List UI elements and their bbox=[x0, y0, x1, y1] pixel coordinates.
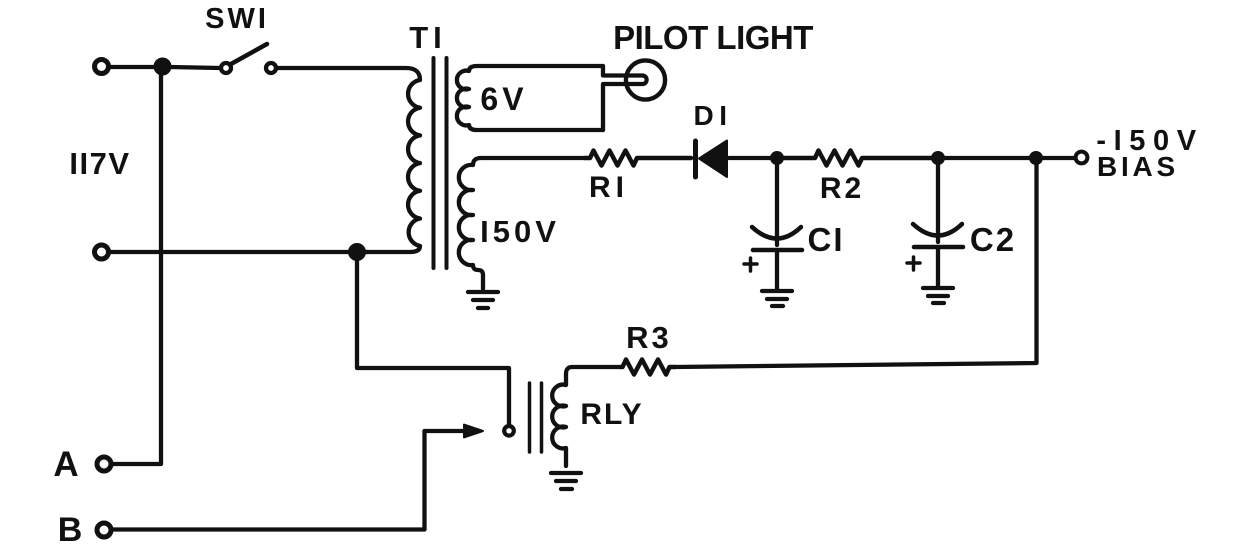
svg-text:SWI: SWI bbox=[205, 3, 269, 35]
svg-text:R3: R3 bbox=[626, 320, 672, 355]
relay RLY coil bbox=[552, 367, 621, 466]
capacitor C2 bbox=[907, 158, 963, 286]
wire bottom 117V bbox=[110, 250, 351, 254]
svg-text:RI: RI bbox=[589, 171, 629, 204]
ground RLY bbox=[551, 473, 581, 489]
wire to output terminal bbox=[1043, 156, 1075, 160]
terminal 117V bottom bbox=[95, 245, 109, 259]
terminal -150V BIAS bbox=[1076, 152, 1088, 164]
resistor R3 bbox=[621, 360, 675, 375]
transformer T1 core bbox=[434, 58, 447, 268]
capacitor C1 bbox=[744, 158, 802, 289]
terminal 117V top bbox=[95, 60, 109, 74]
svg-text:I50V: I50V bbox=[480, 214, 560, 249]
svg-text:C2: C2 bbox=[970, 221, 1016, 258]
junction top bbox=[154, 58, 172, 76]
pilot light leads and filament bbox=[603, 66, 647, 130]
svg-text:R2: R2 bbox=[820, 172, 864, 205]
svg-text:B: B bbox=[58, 511, 83, 549]
terminal B bbox=[97, 523, 111, 537]
diode D1 bbox=[696, 141, 728, 178]
ground C1 bbox=[762, 291, 792, 306]
junction node C1 bbox=[770, 151, 784, 165]
relay contact terminal bbox=[504, 426, 514, 436]
resistor R2 bbox=[784, 151, 931, 166]
svg-text:CI: CI bbox=[808, 221, 845, 258]
ground 150V bbox=[468, 292, 498, 308]
junction node C2 bbox=[931, 151, 945, 165]
svg-text:TI: TI bbox=[409, 20, 447, 55]
terminal A bbox=[97, 457, 111, 471]
svg-text:RLY: RLY bbox=[580, 398, 643, 431]
wire junction down to relay contact bbox=[357, 258, 509, 424]
wire B to arrow bbox=[113, 431, 425, 530]
svg-text:II7V: II7V bbox=[69, 146, 130, 181]
junction node output bbox=[1029, 151, 1043, 165]
transformer T1 6V winding bbox=[457, 66, 603, 130]
wire output node down to R3 bbox=[675, 165, 1037, 367]
relay RLY core bbox=[530, 383, 542, 452]
wire D1 to node bbox=[729, 156, 771, 160]
svg-text:A: A bbox=[53, 445, 78, 484]
ground C2 bbox=[923, 288, 953, 303]
wire to switch bbox=[170, 67, 220, 68]
wire top-left bbox=[110, 65, 155, 69]
svg-text:BIAS: BIAS bbox=[1097, 151, 1179, 182]
resistor R1 bbox=[585, 151, 691, 166]
svg-text:DI: DI bbox=[694, 100, 733, 131]
transformer T1 primary winding bbox=[276, 68, 420, 252]
svg-text:PILOT LIGHT: PILOT LIGHT bbox=[613, 19, 813, 56]
transformer T1 150V winding bbox=[459, 158, 585, 289]
wire junction to primary bottom bbox=[363, 250, 368, 254]
junction node primary bottom bbox=[348, 243, 366, 261]
wire A up to top junction bbox=[112, 67, 161, 464]
pilot light bulb bbox=[626, 60, 665, 99]
svg-text:6V: 6V bbox=[480, 81, 527, 117]
relay armature arrow bbox=[425, 425, 484, 438]
wire C2 node to output node bbox=[938, 156, 1036, 160]
switch SW1 bbox=[221, 44, 276, 73]
